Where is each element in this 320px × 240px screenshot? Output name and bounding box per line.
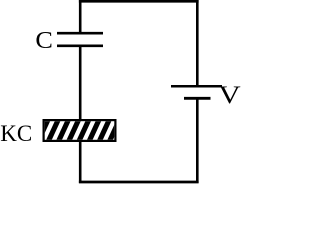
wire top [79, 0, 199, 3]
svg-text:V: V [218, 80, 241, 109]
capacitor C bottom plate [57, 44, 103, 47]
wire right upper (top wire to battery) [196, 0, 199, 86]
resistor KC (hatched box) [37, 117, 131, 144]
wire right lower (battery to bottom wire) [196, 98, 199, 183]
battery V short plate [184, 97, 211, 100]
wire left lower (KC box to bottom wire) [79, 141, 82, 183]
battery V long plate [171, 85, 222, 88]
wire left upper (top wire to capacitor) [79, 0, 82, 33]
wire left middle (capacitor to KC box) [79, 46, 82, 120]
wire bottom [79, 181, 199, 184]
capacitor C top plate [57, 32, 103, 35]
svg-text:KC: KC [0, 121, 32, 146]
svg-text:C: C [35, 28, 53, 54]
